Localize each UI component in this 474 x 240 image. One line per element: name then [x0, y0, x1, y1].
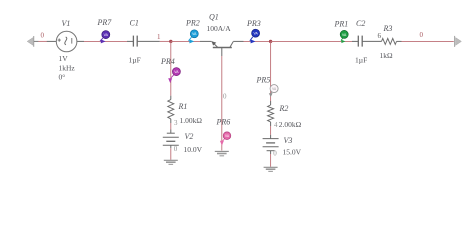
ground (V2) — [164, 160, 178, 164]
battery V2 — [163, 133, 179, 145]
svg-text:C1: C1 — [130, 19, 139, 28]
resistor R1 — [168, 100, 174, 124]
junction collector node — [269, 40, 272, 43]
resistor R3 — [382, 38, 402, 44]
svg-text:1kHz: 1kHz — [59, 64, 76, 73]
svg-text:VA: VA — [104, 33, 109, 37]
svg-text:PR4: PR4 — [160, 57, 175, 66]
ground (V3) — [264, 167, 278, 171]
wire node 1 down to R1 — [170, 41, 172, 95]
svg-text:V2: V2 — [185, 132, 194, 141]
wire input to V1 — [38, 40, 47, 42]
battery V3 — [263, 139, 279, 151]
svg-text:6: 6 — [378, 32, 382, 40]
svg-text:PR2: PR2 — [185, 19, 200, 28]
svg-text:R1: R1 — [178, 102, 188, 111]
svg-text:PR1: PR1 — [334, 20, 349, 29]
input terminal — [27, 36, 34, 47]
svg-text:2.00kΩ: 2.00kΩ — [279, 120, 302, 129]
svg-text:0°: 0° — [59, 73, 66, 82]
svg-text:PR3: PR3 — [246, 19, 261, 28]
svg-text:1µF: 1µF — [355, 56, 367, 65]
probe PR6 — [220, 132, 231, 146]
svg-text:1.00kΩ: 1.00kΩ — [180, 116, 203, 125]
resistor R2 — [268, 105, 274, 126]
wire Q1 collector to node junction — [244, 40, 271, 42]
wire C1 to node 1 — [160, 40, 171, 42]
wire R1 to V2 — [170, 123, 172, 130]
svg-text:4: 4 — [274, 121, 278, 129]
transistor Q1 — [212, 41, 244, 56]
svg-text:15.0V: 15.0V — [283, 148, 302, 157]
svg-text:1µF: 1µF — [129, 55, 141, 64]
wire junction to C2 — [271, 40, 352, 42]
svg-text:VA: VA — [192, 32, 197, 36]
capacitor C2 — [352, 36, 382, 47]
probe PR4 — [168, 68, 180, 83]
AC source V1 — [34, 31, 84, 52]
probe PR2 — [189, 30, 199, 44]
svg-text:10.0V: 10.0V — [184, 145, 203, 154]
junction node 1 — [169, 40, 172, 43]
svg-text:R3: R3 — [383, 24, 393, 33]
capacitor C1 — [127, 36, 160, 47]
wire R3 to output — [402, 40, 454, 42]
svg-text:VA: VA — [253, 32, 258, 36]
probe PR3 — [250, 29, 260, 43]
svg-text:Q1: Q1 — [209, 12, 219, 21]
probe PR5 (inactive) — [269, 85, 278, 97]
svg-text:PR6: PR6 — [216, 118, 231, 127]
svg-text:3: 3 — [174, 119, 178, 127]
svg-text:0: 0 — [223, 93, 227, 101]
probe PR7 — [100, 31, 110, 44]
ground (emitter) — [215, 151, 229, 155]
output terminal — [455, 36, 462, 47]
svg-text:VA: VA — [174, 70, 179, 74]
svg-text:1V: 1V — [59, 54, 69, 63]
svg-text:R2: R2 — [279, 104, 289, 113]
wire V1 to C1 — [84, 40, 127, 42]
svg-text:V1: V1 — [62, 19, 71, 28]
svg-text:1: 1 — [157, 33, 161, 41]
wire V3 to ground — [270, 151, 272, 154]
wire V2 to ground — [170, 145, 172, 148]
wire R2 to V3 — [270, 126, 272, 135]
svg-text:C2: C2 — [356, 19, 365, 28]
svg-text:100A/A: 100A/A — [207, 24, 232, 33]
wire Q1 emitter down — [221, 56, 223, 151]
svg-text:PR5: PR5 — [256, 76, 271, 85]
svg-text:PR7: PR7 — [97, 18, 113, 27]
svg-text:V3: V3 — [284, 136, 293, 145]
svg-text:1kΩ: 1kΩ — [380, 51, 394, 60]
svg-text:0: 0 — [273, 149, 277, 157]
wire collector node down to R2 — [270, 41, 272, 101]
wire node 1 to Q1 — [171, 40, 200, 42]
probe PR1 — [340, 30, 348, 43]
svg-text:0: 0 — [174, 145, 178, 153]
svg-text:0: 0 — [41, 31, 45, 39]
svg-text:VA: VA — [342, 33, 347, 37]
svg-text:0: 0 — [420, 31, 424, 39]
